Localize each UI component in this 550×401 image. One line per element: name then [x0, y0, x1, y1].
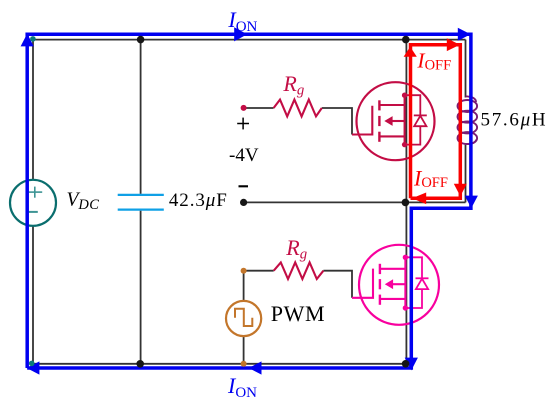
PWM source circle: [226, 301, 261, 336]
wire capacitor branch upper: [140, 40, 142, 194]
transistor Q2 (bottom MOSFET): [352, 245, 439, 325]
node PWM plus terminal: [241, 268, 247, 274]
svg-text:Rg: Rg: [282, 71, 304, 98]
-4V source plus sign: [237, 118, 249, 130]
source stub: [380, 298, 406, 300]
drain stub: [380, 268, 406, 270]
I_ON arrow down at mid-right: [465, 196, 478, 209]
node VDC bottom terminal: [29, 361, 35, 367]
I_OFF arrow left: [412, 193, 426, 205]
wire Q2 drain-source column: [405, 202, 407, 363]
node junction bottom of capacitor: [136, 360, 144, 368]
node PWM bottom terminal: [241, 361, 247, 367]
node Q2 source-diode junction: [403, 305, 408, 310]
body diode branch: [405, 257, 422, 278]
body diode branch: [405, 95, 421, 115]
I_OFF arrow right: [447, 38, 460, 51]
node -4V plus terminal: [241, 105, 247, 111]
node junction bottom of Q2: [402, 360, 410, 368]
I_ON arrow up at top-left: [21, 34, 34, 47]
inductor L1 57.6uH coil: [458, 96, 478, 144]
I_OFF arrow down: [454, 184, 467, 197]
node VDC top terminal: [30, 36, 36, 42]
-4V source minus sign: [239, 185, 249, 187]
voltage source VDC circle: [10, 180, 56, 226]
wire bottom rail: [33, 363, 406, 365]
drain-source vertical: [404, 257, 406, 308]
node -4V minus terminal: [240, 199, 247, 206]
wire right column above inductor: [465, 40, 467, 98]
wire I_ON blue loop: [27, 34, 471, 368]
body arrow stub: [392, 283, 405, 285]
Q2 circle: [359, 245, 439, 325]
svg-text:VDC: VDC: [67, 190, 100, 213]
svg-text:57.6μH: 57.6μH: [481, 109, 548, 130]
body arrow stub: [392, 120, 405, 122]
transistor Q1 (top MOSFET): [352, 82, 435, 160]
source stub: [379, 135, 404, 137]
wire right column below inductor: [465, 143, 467, 202]
resistor Rg (top gate): [274, 100, 322, 117]
wire PWM bottom lead: [243, 336, 245, 364]
I_ON arrow down at bottom-right: [405, 358, 418, 371]
wire PWM plus terminal to Rg: [245, 270, 274, 272]
wire top rail: [33, 39, 466, 41]
node Q1 drain-diode junction: [402, 93, 407, 98]
wire -4V plus terminal to Rg: [245, 107, 274, 109]
node Q2 drain-diode junction: [403, 255, 408, 260]
VDC minus sign: [27, 211, 38, 213]
wire Q1 drain-source column: [405, 40, 407, 203]
wire Rg to Q1 gate (step): [322, 108, 352, 135]
VDC plus sign: [28, 187, 43, 198]
channel dashes: [378, 100, 380, 110]
node Q1 source-diode junction: [402, 142, 407, 147]
svg-text:42.3μF: 42.3μF: [169, 190, 228, 211]
svg-text:ION: ION: [227, 7, 257, 35]
node junction top of capacitor: [137, 36, 145, 44]
drain stub: [379, 104, 404, 106]
resistor Rg (bottom gate): [274, 262, 324, 279]
I_ON arrow right at top: [234, 27, 247, 41]
Q1 circle: [357, 82, 435, 160]
svg-text:PWM: PWM: [271, 301, 325, 326]
gate lead: [352, 269, 373, 298]
drain-source vertical: [404, 95, 406, 144]
svg-text:IOFF: IOFF: [413, 166, 448, 192]
node junction top of Q1: [402, 36, 410, 44]
wire capacitor branch lower: [140, 211, 142, 364]
channel dashes: [379, 264, 381, 274]
wire PWM top lead: [243, 271, 245, 302]
node switch node junction: [402, 199, 410, 207]
svg-text:ION: ION: [227, 373, 257, 401]
capacitor C1 plates: [118, 195, 164, 210]
wire I_OFF red loop: [411, 45, 461, 199]
I_ON arrow left at bottom-left corner: [27, 361, 40, 374]
svg-text:IOFF: IOFF: [416, 48, 451, 73]
wire Rg to Q2 gate (step): [323, 271, 352, 298]
wire mid rail (switch node): [244, 201, 466, 203]
gate lead: [352, 106, 372, 135]
wire left rail: [32, 40, 34, 364]
PWM square wave glyph: [235, 309, 252, 326]
svg-text:-4V: -4V: [229, 145, 259, 166]
I_ON arrow left at bottom: [249, 361, 262, 374]
svg-text:Rg: Rg: [285, 235, 307, 262]
I_OFF arrow up: [404, 47, 417, 57]
I_ON arrow right at top-right corner: [458, 28, 471, 41]
